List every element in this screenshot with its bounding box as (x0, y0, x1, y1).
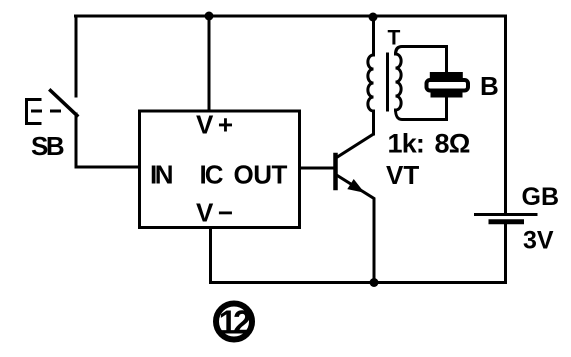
wire IC V- pin down to bottom rail (209, 228, 212, 283)
IC box (140, 111, 300, 228)
transistor VT emitter lead (337, 175, 375, 283)
wire switch bottom contact down and right to IC IN pin (76, 114, 140, 167)
svg-text:3V: 3V (523, 227, 554, 255)
buzzer B body pill (427, 80, 469, 91)
battery GB positive plate (476, 213, 537, 216)
wire secondary top lead to buzzer (396, 47, 447, 73)
svg-text:V+: V+ (196, 110, 238, 140)
switch SB blade (51, 91, 78, 116)
transistor VT emitter arrowhead (347, 179, 364, 193)
svg-text:V−: V− (196, 198, 238, 228)
svg-text:GB: GB (522, 183, 560, 211)
svg-text:OUT: OUT (234, 160, 288, 190)
wire bottom rail (211, 281, 506, 284)
wire right drop from top rail to battery positive (504, 16, 507, 213)
wire left drop from top rail to switch top contact (75, 16, 78, 96)
transformer T secondary coil (396, 54, 402, 110)
figure label 12 circle (216, 304, 252, 340)
buzzer B top bar (430, 72, 463, 79)
wire secondary bottom lead to buzzer (396, 98, 447, 120)
svg-text:VT: VT (386, 160, 419, 190)
svg-text:8Ω: 8Ω (435, 129, 470, 159)
svg-text:SB: SB (31, 131, 64, 161)
junction dot top rail at IC V+ (205, 12, 214, 21)
svg-text:12: 12 (219, 304, 251, 341)
transformer T core (386, 54, 389, 110)
wire top rail (76, 15, 505, 18)
junction dot top rail at transformer primary (369, 13, 378, 22)
svg-text:IN: IN (150, 160, 173, 190)
battery GB negative plate (491, 219, 522, 224)
wire battery negative to bottom rail (504, 224, 507, 283)
wire IC OUT pin to transistor base (300, 167, 336, 170)
transistor VT base bar (333, 155, 338, 188)
switch SB actuator dashed link (31, 110, 62, 113)
transformer T primary coil (368, 18, 374, 135)
svg-text:T: T (388, 27, 401, 50)
switch SB actuator bracket (27, 100, 41, 124)
svg-text:IC: IC (200, 160, 224, 190)
transistor VT collector lead (337, 111, 374, 158)
svg-text:B: B (480, 71, 499, 101)
wire IC V+ pin to top rail (208, 16, 211, 111)
svg-text:1k:: 1k: (388, 129, 425, 159)
buzzer B bottom bar (431, 92, 463, 98)
junction dot bottom rail at emitter (370, 278, 379, 287)
